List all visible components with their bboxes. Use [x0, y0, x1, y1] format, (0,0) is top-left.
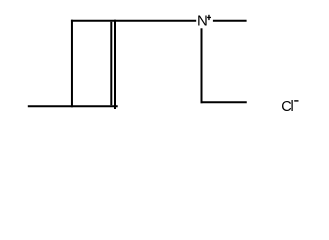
svg-text:l: l — [291, 99, 294, 115]
double bond main line — [114, 20, 116, 109]
bond ring left edge — [71, 20, 73, 108]
bond N to ethyl CH2 — [201, 28, 203, 103]
charge + — [207, 15, 211, 20]
bond methyl to ring bottom edge — [28, 105, 118, 107]
bond ethyl CH2 to CH3 — [201, 101, 247, 103]
double bond inner line — [110, 22, 112, 106]
bond ring top edge to N — [71, 20, 196, 22]
svg-text:N: N — [197, 12, 208, 29]
bond N to right methyl — [213, 20, 247, 22]
charge - — [294, 100, 298, 101]
